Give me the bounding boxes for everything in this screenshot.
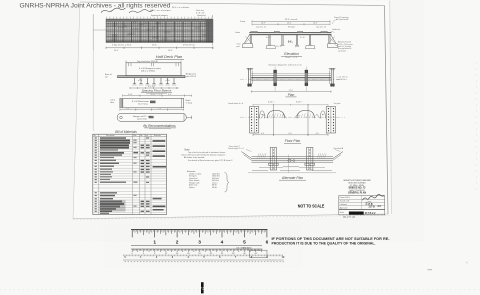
svg-text:IF PORTIONS OF THIS DOCUMENT A: IF PORTIONS OF THIS DOCUMENT ARE NOT SUI… [272,237,391,241]
svg-text:GNRHS-NPRHA Joint Archives - a: GNRHS-NPRHA Joint Archives - all rights … [20,3,171,10]
svg-text:PRODUCTION IT IS DUE TO THE QU: PRODUCTION IT IS DUE TO THE QUALITY OF T… [272,241,376,245]
